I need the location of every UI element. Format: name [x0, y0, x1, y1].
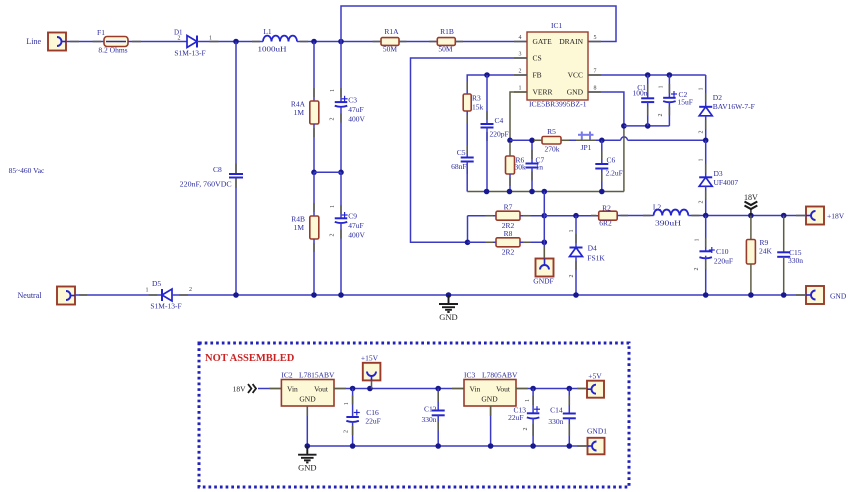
wire VERR horizontal net to D2 D3 node: [510, 139, 621, 141]
wire pin stub C9 top: [340, 205, 342, 214]
junction neutral R4B: [311, 292, 317, 298]
wire 18V to IC2: [258, 388, 281, 390]
wire hop over pin8 net: [621, 137, 628, 140]
svg-text:22uF: 22uF: [508, 413, 523, 422]
svg-text:+18V: +18V: [827, 212, 845, 221]
svg-text:85~460 Vac: 85~460 Vac: [9, 166, 45, 175]
ground GND earth symbol: [439, 295, 458, 312]
svg-text:2R2: 2R2: [502, 248, 515, 257]
inductor L2: [654, 210, 689, 216]
junction neutral C10: [703, 292, 709, 298]
wire C10 bottom to neutral rail: [705, 256, 707, 295]
wire VCC net pin 7 to D2: [588, 74, 706, 76]
wire after hop to D2 D3 node: [628, 139, 706, 141]
svg-text:1: 1: [569, 230, 575, 233]
svg-text:Vout: Vout: [314, 385, 329, 394]
svg-text:C5: C5: [457, 148, 466, 157]
svg-text:IC1: IC1: [551, 21, 563, 30]
node +18V connector: [806, 207, 824, 225]
junction node D (R4A bottom): [311, 170, 317, 176]
svg-text:L2: L2: [653, 203, 662, 212]
junction rail C16: [350, 443, 356, 449]
svg-text:S1M-13-F: S1M-13-F: [150, 302, 181, 311]
junction +15V stem: [367, 386, 373, 392]
wire pin stub L1 left: [252, 41, 260, 43]
svg-text:Vout: Vout: [496, 385, 511, 394]
svg-text:L7805ABV: L7805ABV: [482, 371, 518, 380]
wire C3 down to node E: [340, 107, 342, 172]
svg-text:8: 8: [594, 86, 597, 92]
svg-text:S1M-13-F: S1M-13-F: [174, 49, 205, 58]
inductor L1: [263, 36, 297, 42]
svg-text:R1B: R1B: [440, 27, 454, 36]
diode D3: [699, 176, 712, 178]
junction output node at C15: [781, 213, 787, 219]
svg-text:JP1: JP1: [581, 143, 592, 152]
wire pin stub D5 left: [149, 294, 158, 296]
wire R2 to L2: [617, 215, 653, 217]
junction neutral C9: [338, 292, 344, 298]
wire R1B to GATE pin 4 of IC1: [455, 41, 527, 43]
svg-text:15k: 15k: [472, 103, 484, 112]
junction neutral GND symbol: [446, 292, 452, 298]
node +5V connector: [587, 381, 604, 398]
svg-text:F1: F1: [97, 28, 105, 37]
wire pin stub R1B right: [455, 41, 463, 43]
svg-text:5: 5: [594, 35, 597, 41]
wire C6 bottom to gnd rail: [601, 169, 603, 192]
diode D5: [162, 289, 172, 301]
wire R8 left: [468, 241, 497, 243]
wire top rail from node C over IC1 to DRAIN pin 5: [341, 6, 616, 42]
wire D4 vertical top: [575, 216, 577, 248]
svg-text:DRAIN: DRAIN: [559, 37, 583, 46]
wire pin stub R3 top: [466, 81, 468, 90]
wire pin stub R4B bottom: [313, 243, 315, 252]
svg-text:1: 1: [695, 239, 701, 242]
wire CS net from pin 3 down to R7 R8: [411, 58, 528, 242]
junction neutral D4: [573, 292, 579, 298]
svg-text:GND: GND: [481, 395, 498, 404]
svg-text:1000uH: 1000uH: [258, 45, 288, 54]
wire pin stub D1 right: [210, 41, 219, 43]
wire IC2 Vout rail to IC3 Vin: [334, 388, 464, 390]
diode D1: [187, 36, 197, 48]
junction node F (D2 D3 junction): [703, 138, 709, 144]
svg-text:2: 2: [699, 131, 705, 134]
wire FB net from pin 2 to R3: [467, 75, 527, 94]
capacitor C13 polarized: [527, 412, 540, 414]
svg-text:C8: C8: [213, 165, 222, 174]
capacitor C9 polarized: [335, 217, 348, 219]
wire C1 C2 bottom tee: [624, 125, 670, 127]
plus mark of C13: [534, 408, 540, 410]
svg-text:+15V: +15V: [361, 354, 379, 363]
svg-text:GND: GND: [439, 312, 457, 322]
wire pin stub C4 bottom: [486, 132, 488, 141]
wire C1 vertical bottom: [647, 102, 649, 126]
wire pin stub R5 left: [534, 139, 542, 141]
capacitor C3 polarized: [335, 101, 348, 103]
junction VERR node R6 top: [507, 138, 513, 144]
wire bottom module ground rail: [307, 445, 587, 447]
svg-text:R8: R8: [504, 229, 513, 238]
wire +15V stem: [371, 380, 373, 388]
wire pin stub IC1 VERR: [514, 91, 527, 93]
wire IC3 Vout to +5V: [516, 388, 587, 390]
wire C8 down to neutral rail: [235, 178, 237, 296]
svg-text:C14: C14: [550, 406, 563, 415]
svg-text:8.2 Ohms: 8.2 Ohms: [98, 46, 127, 55]
wire C4 bottom to gnd rail: [486, 128, 488, 192]
wire C4 top: [486, 75, 488, 124]
wire pin stub JP1: [576, 139, 596, 141]
junction C1 bottom: [645, 123, 651, 129]
resistor R5: [542, 137, 561, 145]
junction C2 top: [667, 72, 673, 78]
junction C12 top: [435, 386, 441, 392]
wire pin stub C8 top: [235, 164, 237, 174]
capacitor C6: [595, 163, 608, 165]
wire pin stub R1B left: [429, 41, 437, 43]
plus mark of C3: [342, 98, 348, 100]
svg-text:22uF: 22uF: [365, 417, 380, 426]
capacitor C1: [641, 97, 654, 99]
junction rail C12: [435, 443, 441, 449]
svg-text:VERR: VERR: [533, 88, 553, 97]
svg-text:24K: 24K: [759, 247, 773, 256]
wire R4A to node D: [313, 124, 315, 172]
diode D4: [570, 247, 583, 249]
wire C12 bottom to rail: [437, 415, 439, 446]
wire C14 vertical top: [568, 389, 570, 414]
plus mark of C16: [354, 412, 360, 414]
resistor R8: [496, 238, 520, 247]
wire pin stub R4A top: [313, 88, 315, 97]
svg-text:R7: R7: [504, 203, 513, 212]
wire pin stub Line connector: [70, 41, 79, 43]
resistor R4B: [310, 216, 319, 239]
svg-text:+5V: +5V: [588, 372, 602, 381]
wire pin stub F1 left: [93, 41, 102, 43]
wire R7 left: [468, 215, 497, 217]
svg-text:D4: D4: [588, 244, 597, 253]
frame NOT ASSEMBLED dotted border: [199, 343, 629, 487]
wire R8 right to GNDF vertical: [520, 241, 544, 243]
ground GND earth symbol bottom: [298, 446, 316, 462]
wire C14 bottom to rail: [568, 418, 570, 446]
capacitor C5: [461, 157, 474, 159]
junction gnd rail R6: [507, 189, 513, 195]
svg-text:1: 1: [209, 36, 212, 42]
junction rail C13: [530, 443, 536, 449]
svg-text:1: 1: [146, 288, 149, 294]
wire D4 bottom to neutral rail: [575, 257, 577, 296]
svg-text:L7815ABV: L7815ABV: [299, 371, 335, 380]
svg-text:R3: R3: [472, 94, 481, 103]
wire pin stub F1 right: [132, 41, 141, 43]
wire GNDF vertical: [543, 192, 545, 259]
wire Neutral to D5: [75, 294, 162, 296]
wire IC3 GND down: [490, 406, 492, 446]
wire R4B down to neutral rail: [313, 239, 315, 295]
wire C13 bottom to rail: [532, 418, 534, 446]
wire pin stub R4A bottom: [313, 128, 315, 137]
svg-text:30k: 30k: [515, 163, 527, 172]
wire node A to L1: [236, 41, 263, 43]
resistor R3: [463, 94, 471, 111]
junction D4 top: [573, 213, 579, 219]
node Neutral: input connector: [57, 287, 75, 305]
capacitor C16 polarized: [346, 416, 359, 418]
wire L2 to output node: [688, 215, 806, 217]
junction gnd rail GNDF branch: [542, 189, 548, 195]
resistor R7: [496, 211, 520, 220]
junction output node at 18V R9: [748, 213, 754, 219]
wire pin stub IC1 VCC: [588, 74, 601, 76]
svg-text:2: 2: [343, 430, 349, 433]
junction FB node at C4: [484, 72, 490, 78]
junction neutral R9: [748, 292, 754, 298]
wire pin stub GND connector: [796, 294, 806, 296]
wire pin stub C5 top: [466, 146, 468, 155]
wire VERR net pin 1 down: [510, 92, 527, 140]
svg-text:C10: C10: [716, 247, 729, 256]
svg-text:FS1K: FS1K: [587, 254, 605, 263]
svg-text:NOT ASSEMBLED: NOT ASSEMBLED: [205, 353, 295, 364]
fuse F1: [104, 37, 128, 47]
resistor R2: [599, 211, 618, 220]
svg-text:270k: 270k: [545, 145, 560, 154]
wire C15 top: [783, 216, 785, 253]
resistor R9: [746, 240, 755, 265]
wire C2 vertical top: [668, 75, 670, 98]
svg-text:R1A: R1A: [384, 27, 399, 36]
svg-text:400V: 400V: [348, 231, 365, 240]
svg-text:1: 1: [699, 88, 705, 91]
resistor R1A: [381, 38, 399, 46]
svg-text:C9: C9: [348, 212, 357, 221]
svg-text:D2: D2: [713, 93, 722, 102]
wire C9 down to neutral rail: [340, 223, 342, 295]
voltage regulator IC3 body: [464, 380, 516, 407]
wire D2 top: [705, 75, 707, 107]
capacitor C14: [563, 413, 576, 415]
wire node D to node E: [314, 171, 341, 173]
svg-text:GND: GND: [567, 88, 584, 97]
svg-text:ICE5BR3995BZ-1: ICE5BR3995BZ-1: [529, 100, 587, 109]
svg-text:2: 2: [658, 114, 664, 117]
svg-text:GND: GND: [298, 463, 316, 473]
node GND connector right: [806, 286, 824, 304]
wire neutral rail to GND connector: [172, 294, 806, 296]
junction rail C14: [567, 443, 573, 449]
wire pin stub D5 right: [179, 294, 188, 296]
wire node B down to R4A: [313, 42, 315, 102]
svg-text:C4: C4: [495, 116, 504, 125]
node +15V supply connector: [363, 363, 381, 381]
wire pin8 GND net of IC1: [588, 92, 624, 126]
svg-text:2: 2: [694, 268, 700, 271]
wire R9 bottom to neutral rail: [750, 264, 752, 295]
junction gnd rail C7: [529, 189, 535, 195]
wire R6 bottom to gnd rail: [509, 174, 511, 192]
wire pin stub IC1 DRAIN: [588, 41, 601, 43]
junction node C (top of C3): [338, 39, 344, 45]
wire node E down to C9: [340, 172, 342, 218]
junction C13 top: [530, 386, 536, 392]
svg-text:GND: GND: [830, 292, 847, 301]
svg-text:1: 1: [344, 402, 350, 405]
wire C16 bottom to rail: [352, 421, 354, 446]
resistor R6: [506, 156, 515, 174]
svg-text:R5: R5: [547, 127, 556, 136]
capacitor C4: [481, 123, 494, 125]
svg-text:1: 1: [525, 399, 531, 402]
junction C1 top: [645, 72, 651, 78]
wire pin stub IC1 GND: [588, 91, 601, 93]
wire C15 bottom to neutral rail: [783, 257, 785, 295]
svg-text:2: 2: [519, 69, 522, 75]
diode D2: [699, 106, 712, 108]
svg-text:50M: 50M: [438, 45, 453, 54]
svg-text:UF4007: UF4007: [714, 178, 739, 187]
wire D3 bottom to output rail: [705, 186, 707, 215]
svg-text:GND: GND: [299, 395, 316, 404]
junction output node at D3 C10: [703, 213, 709, 219]
svg-text:2: 2: [330, 234, 336, 237]
wire pin stub IC1 CS: [514, 57, 527, 59]
svg-text:2: 2: [569, 275, 575, 278]
junction node B (top of R4A): [311, 39, 317, 45]
wire D1 to node A: [197, 41, 236, 43]
wire node A down to C8: [235, 42, 237, 175]
junction neutral C8: [233, 292, 239, 298]
svg-text:6R2: 6R2: [599, 219, 612, 228]
wire Line to F1 fuse: [66, 41, 104, 43]
plus mark of C2: [671, 93, 677, 95]
svg-text:47uF: 47uF: [348, 105, 363, 114]
svg-text:1M: 1M: [294, 223, 305, 232]
svg-text:D5: D5: [152, 279, 161, 288]
junction pin8 net C1 C2 bottoms: [621, 123, 627, 129]
wire IC2 GND down: [306, 406, 308, 446]
wire C2 vertical bottom: [668, 102, 670, 126]
wire pin8 net olive segment down to gnd rail: [623, 126, 625, 192]
wire L1 to node B and node C and R1A: [297, 41, 380, 43]
svg-text:R2: R2: [602, 204, 611, 213]
wire node D down to R4B: [313, 172, 315, 216]
svg-text:Neutral: Neutral: [18, 291, 43, 300]
wire R3 to C5: [466, 111, 468, 158]
wire C1 vertical top: [647, 75, 649, 98]
svg-text:1: 1: [659, 86, 665, 89]
wire C7 bottom to gnd rail: [531, 168, 533, 192]
svg-text:GND1: GND1: [587, 427, 607, 436]
svg-text:Vin: Vin: [470, 385, 481, 394]
wire C6 top: [601, 140, 603, 164]
wire C5 down to gnd rail corner: [466, 162, 468, 192]
svg-text:C6: C6: [607, 156, 616, 165]
node GND1 connector: [588, 438, 605, 455]
junction R8 GNDF vertical: [542, 240, 548, 246]
plus mark of C9: [342, 214, 348, 216]
wire C7 top: [531, 140, 533, 163]
wire pin stub R3 bottom: [466, 115, 468, 124]
svg-text:1M: 1M: [294, 108, 305, 117]
svg-text:D3: D3: [714, 169, 723, 178]
svg-text:220nF, 760VDC: 220nF, 760VDC: [180, 180, 232, 189]
wire pin stub GND1: [577, 445, 587, 447]
svg-text:47uF: 47uF: [348, 221, 363, 230]
junction C6 top node: [599, 138, 605, 144]
svg-text:C12: C12: [424, 405, 437, 414]
capacitor C12: [432, 410, 445, 412]
wire R1A to R1B: [399, 41, 437, 43]
plus mark of C10: [709, 249, 715, 251]
wire pin stub R1A left: [373, 41, 382, 43]
svg-text:400V: 400V: [348, 115, 365, 124]
wire pin stub R4B top: [313, 203, 315, 212]
wire R6 top stub: [509, 142, 511, 156]
svg-text:220uF: 220uF: [714, 257, 733, 266]
wire node C down to C3: [340, 42, 342, 103]
svg-text:IC2: IC2: [281, 371, 293, 380]
svg-text:68nF: 68nF: [451, 162, 466, 171]
wire pin stub IC1 GATE: [514, 41, 527, 43]
wire C16 vertical top: [352, 389, 354, 418]
svg-text:GNDF: GNDF: [533, 277, 553, 286]
wire node F down to D3: [705, 140, 707, 177]
svg-text:2.2uF: 2.2uF: [606, 169, 623, 178]
svg-text:330n: 330n: [422, 415, 437, 424]
resistor R4A: [310, 101, 319, 124]
junction C14 top: [567, 386, 573, 392]
wire pin stub IC1 FB: [514, 74, 527, 76]
junction rail IC2 GND: [305, 443, 311, 449]
svg-text:100n: 100n: [633, 89, 648, 98]
wire pin stub C3 top: [340, 88, 342, 97]
wire pin stub R1A right: [399, 41, 407, 43]
svg-text:1: 1: [330, 205, 336, 208]
svg-text:Line: Line: [26, 37, 41, 46]
svg-text:50M: 50M: [383, 45, 398, 54]
svg-text:390uH: 390uH: [655, 219, 682, 228]
jumper JP1: [578, 132, 594, 141]
wire R7 left vertical link: [467, 216, 469, 243]
junction rail IC3 GND: [488, 443, 494, 449]
svg-text:C3: C3: [348, 96, 357, 105]
junction C16 top: [350, 386, 356, 392]
svg-text:15uF: 15uF: [678, 98, 693, 107]
node Line: input connector: [48, 33, 66, 51]
wire pin stub C5 bottom: [466, 166, 468, 175]
svg-text:2: 2: [189, 287, 192, 293]
svg-text:BAV16W-7-F: BAV16W-7-F: [713, 102, 755, 111]
svg-text:2: 2: [699, 201, 705, 204]
wire C13 vertical top: [532, 389, 534, 414]
svg-text:VCC: VCC: [568, 71, 583, 80]
capacitor C10 polarized: [699, 250, 712, 252]
wire pin stub C4 top: [486, 111, 488, 120]
capacitor C15: [777, 251, 790, 253]
svg-text:2: 2: [523, 428, 529, 431]
power source 18V chevron: [248, 384, 251, 393]
wire pin stub C8 bottom: [235, 179, 237, 189]
junction gnd rail C4: [484, 189, 490, 195]
junction gnd rail C6: [599, 189, 605, 195]
resistor R1B: [437, 38, 455, 46]
